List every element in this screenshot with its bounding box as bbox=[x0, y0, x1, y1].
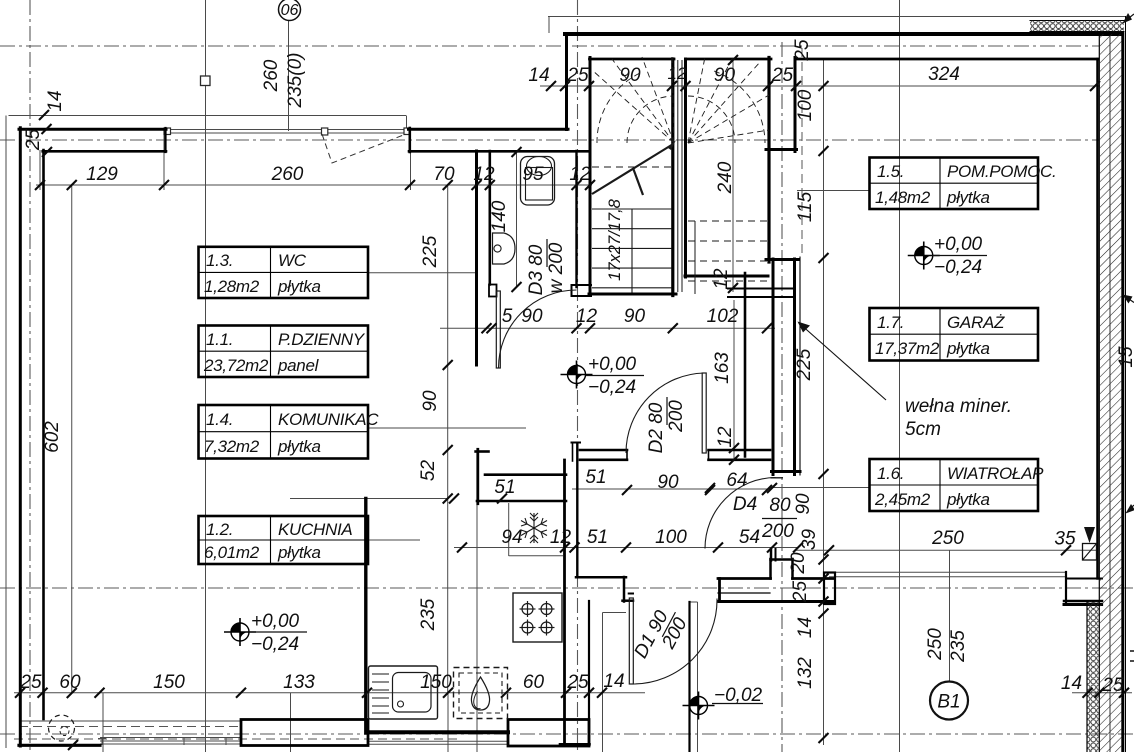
svg-text:1.1.: 1.1. bbox=[206, 330, 233, 349]
svg-text:płytka: płytka bbox=[946, 188, 990, 207]
T mark bbox=[101, 738, 103, 745]
wall layer line inside hatch bbox=[1109, 36, 1111, 752]
window mid cap bbox=[322, 128, 328, 135]
svg-text:100: 100 bbox=[795, 89, 816, 121]
ticks row C bbox=[482, 323, 773, 333]
right bottom insulation boundaries bbox=[1086, 601, 1088, 752]
svg-text:52: 52 bbox=[418, 460, 439, 482]
svg-text:94: 94 bbox=[501, 527, 522, 548]
outer face step at stair bbox=[548, 17, 550, 34]
wall hall east thin face bbox=[799, 257, 801, 475]
svg-text:14: 14 bbox=[45, 90, 66, 111]
wall left outer bbox=[19, 128, 22, 746]
svg-text:90: 90 bbox=[420, 390, 441, 412]
ticks stack x823 bbox=[819, 81, 829, 743]
stove bbox=[513, 593, 562, 642]
arrow right wall lower bbox=[1128, 505, 1134, 511]
svg-text:25: 25 bbox=[792, 39, 813, 62]
south pier 1 bbox=[241, 720, 368, 746]
svg-text:133: 133 bbox=[283, 672, 315, 693]
entrance arrow marker bbox=[1084, 527, 1095, 543]
dim row F line left bbox=[14, 692, 645, 694]
door D2 swing arc bbox=[626, 373, 704, 453]
axis horizontal A bbox=[0, 45, 1099, 47]
FIXTURES bbox=[49, 157, 563, 742]
wall stair central left bbox=[671, 59, 674, 296]
wall top mid outer edge bbox=[409, 128, 569, 131]
wall stair NW vertical bbox=[565, 34, 568, 130]
svg-text:D4: D4 bbox=[733, 494, 757, 515]
svg-text:płytka: płytka bbox=[946, 339, 990, 358]
extension line B1 x899 bbox=[899, 0, 901, 752]
svg-text:90: 90 bbox=[624, 306, 646, 327]
leader table kuchnia bbox=[368, 539, 420, 541]
svg-text:240: 240 bbox=[715, 161, 736, 194]
table 1.4 KOMUNIKACJA bbox=[199, 405, 369, 459]
svg-text:12: 12 bbox=[711, 268, 732, 290]
svg-text:163: 163 bbox=[712, 352, 733, 384]
svg-text:14: 14 bbox=[528, 65, 549, 86]
axis horizontal B bbox=[0, 139, 1099, 141]
wall cap at x409 bbox=[408, 128, 411, 152]
ticks row A bbox=[546, 81, 1100, 91]
svg-text:12: 12 bbox=[473, 164, 495, 185]
kitchen window lines bbox=[368, 740, 508, 742]
wall stub below D4 bbox=[770, 549, 773, 561]
svg-text:B1: B1 bbox=[937, 692, 960, 713]
ticks row D bbox=[457, 543, 803, 553]
wall corridor south right of D2 bbox=[709, 449, 771, 452]
top window glazing bbox=[168, 129, 406, 131]
dim extension stubs row B bbox=[39, 150, 41, 190]
svg-text:płytka: płytka bbox=[277, 437, 321, 456]
axis bubble B1 bbox=[930, 682, 968, 720]
right edge small marks bbox=[1130, 650, 1134, 652]
table 1.7 GARAZ bbox=[870, 308, 1039, 361]
door D2 leaf bbox=[702, 373, 706, 453]
jamb D2 west block bbox=[572, 442, 581, 444]
wall window end cap left bbox=[164, 128, 166, 152]
wall kitchen north lower bbox=[477, 500, 566, 503]
svg-text:+0,00: +0,00 bbox=[251, 611, 300, 632]
wall kitchen north upper bbox=[485, 473, 566, 476]
svg-text:−0,24: −0,24 bbox=[934, 257, 982, 278]
wall stair bottom right flight bbox=[685, 275, 768, 278]
axis vertical 3 bbox=[781, 42, 783, 752]
table 1.1 P.DZIENNY bbox=[199, 326, 369, 378]
dim 240 stair bbox=[732, 60, 734, 292]
dim row A line bbox=[540, 85, 1100, 87]
svg-text:płytka: płytka bbox=[946, 490, 990, 509]
svg-text:150: 150 bbox=[153, 672, 185, 693]
svg-text:płytka: płytka bbox=[277, 277, 321, 296]
stair treads left flight bbox=[592, 208, 672, 210]
svg-text:1.6.: 1.6. bbox=[877, 464, 904, 483]
wall band under stair landing bbox=[728, 288, 795, 290]
kitchen sink unit bbox=[369, 666, 438, 719]
svg-text:39: 39 bbox=[799, 529, 820, 551]
axis 06 stem bbox=[288, 21, 290, 132]
svg-text:20: 20 bbox=[788, 552, 809, 575]
wall entry south band bottom edge bbox=[719, 600, 833, 603]
axis vertical 2 bbox=[577, 0, 579, 752]
svg-text:1.5.: 1.5. bbox=[877, 162, 904, 181]
door D1 swing arc bbox=[633, 599, 717, 685]
STAIRS bbox=[592, 57, 769, 294]
extension verticals below bbox=[102, 693, 104, 752]
table 1.2 KUCHNIA bbox=[199, 516, 369, 564]
svg-text:60: 60 bbox=[523, 672, 545, 693]
door label D3 bbox=[526, 239, 567, 295]
toilet tank bbox=[521, 157, 555, 206]
dim row F line right bbox=[1072, 692, 1132, 694]
heater flame drop bbox=[471, 677, 489, 710]
dim 163 line bbox=[733, 300, 735, 460]
leader table komunikacja bbox=[368, 427, 526, 429]
svg-text:5: 5 bbox=[502, 306, 513, 327]
svg-text:51: 51 bbox=[587, 527, 608, 548]
svg-text:54: 54 bbox=[739, 527, 760, 548]
B1 stem bbox=[949, 550, 951, 681]
small square marker on line x205 bbox=[201, 76, 211, 86]
door D3 leaf bbox=[496, 291, 500, 368]
wall WC west outer bbox=[475, 151, 478, 365]
leader table WC bbox=[367, 272, 476, 274]
svg-text:51: 51 bbox=[585, 467, 606, 488]
wall kitchen west bbox=[364, 499, 367, 734]
svg-text:64: 64 bbox=[726, 470, 747, 491]
wall garage north inner face bbox=[795, 58, 1098, 61]
svg-text:14: 14 bbox=[603, 671, 624, 692]
axis horizontal C bbox=[0, 587, 1134, 589]
boiler dashed circle bbox=[49, 715, 75, 741]
svg-text:90: 90 bbox=[714, 65, 736, 86]
svg-text:35: 35 bbox=[1054, 529, 1076, 550]
ticks row G bbox=[443, 485, 772, 504]
wall band below stair east bbox=[766, 258, 799, 261]
ticks dim 602 bbox=[67, 180, 77, 698]
top insulation dotted band bbox=[1030, 21, 1124, 32]
jamb D3 right bbox=[572, 284, 592, 286]
dim row G right bbox=[572, 488, 770, 490]
door D1 right jamb bbox=[718, 579, 721, 602]
fridge snowflake bbox=[521, 513, 547, 543]
toilet bowl bbox=[526, 168, 553, 201]
wall top mid inner edge bbox=[409, 150, 590, 153]
wall hall east left edge bbox=[772, 259, 775, 475]
south wall bottom edge left bbox=[19, 744, 100, 747]
table 1.5 POM.POMOC bbox=[870, 158, 1039, 210]
svg-text:235(0): 235(0) bbox=[285, 53, 306, 109]
svg-text:GARAŻ: GARAŻ bbox=[947, 313, 1005, 332]
table 1.3 WC bbox=[199, 247, 369, 298]
svg-text:1.4.: 1.4. bbox=[206, 410, 233, 429]
svg-text:100: 100 bbox=[655, 527, 687, 548]
wall kitchen east outer bbox=[576, 443, 578, 577]
ticks row E bbox=[824, 545, 1071, 555]
svg-text:12: 12 bbox=[715, 426, 736, 448]
svg-text:1,28m2: 1,28m2 bbox=[204, 277, 260, 296]
wall top-left outer edge bbox=[19, 128, 166, 131]
svg-text:25: 25 bbox=[790, 581, 811, 604]
top insulation band boundary bbox=[1030, 20, 1124, 22]
svg-text:7,32m2: 7,32m2 bbox=[204, 437, 260, 456]
svg-text:1.7.: 1.7. bbox=[877, 313, 904, 332]
svg-text:WC: WC bbox=[278, 251, 307, 270]
wall left inner bbox=[42, 150, 45, 719]
wall notch top bbox=[771, 558, 793, 561]
svg-text:1.3.: 1.3. bbox=[206, 251, 233, 270]
svg-text:260: 260 bbox=[271, 164, 304, 185]
dim stack x823 bbox=[823, 58, 825, 745]
svg-text:+0,00: +0,00 bbox=[934, 234, 983, 255]
porch bottom cap left bbox=[560, 743, 590, 746]
svg-text:25: 25 bbox=[771, 65, 794, 86]
wall hall east bottom cap bbox=[772, 470, 801, 473]
stair walking arc right bbox=[688, 96, 735, 143]
svg-text:12: 12 bbox=[550, 527, 572, 548]
svg-text:KUCHNIA: KUCHNIA bbox=[278, 520, 352, 539]
ticks row B bbox=[35, 180, 595, 190]
svg-text:250: 250 bbox=[931, 528, 964, 549]
svg-text:14: 14 bbox=[795, 617, 816, 638]
svg-text:324: 324 bbox=[928, 64, 960, 85]
stair tread dashed above break bbox=[592, 166, 672, 168]
wall stair central right bbox=[684, 59, 687, 277]
wall stair west bbox=[589, 58, 592, 295]
arrow right wall mid bbox=[1126, 297, 1134, 303]
svg-text:23,72m2: 23,72m2 bbox=[203, 356, 269, 375]
outer face left bbox=[5, 116, 7, 749]
svg-text:−0,24: −0,24 bbox=[251, 634, 299, 655]
room tables bbox=[199, 158, 1039, 565]
svg-text:17,37m2: 17,37m2 bbox=[875, 339, 940, 358]
door label D4 bbox=[733, 494, 797, 542]
svg-text:25: 25 bbox=[1101, 675, 1124, 696]
wall finger right edge bbox=[794, 58, 797, 152]
svg-text:14: 14 bbox=[1061, 673, 1082, 694]
tick bottom-left wall bbox=[68, 147, 522, 750]
door D1 leaf bbox=[629, 598, 633, 684]
window left cap bbox=[164, 128, 171, 135]
level marker hall bbox=[561, 361, 593, 389]
door D4 leaf bbox=[771, 477, 784, 479]
svg-text:235: 235 bbox=[948, 630, 969, 663]
ticks dim 64 bbox=[705, 483, 777, 493]
stair balustrade line bbox=[694, 221, 696, 294]
svg-text:200: 200 bbox=[666, 400, 687, 433]
door label D2 bbox=[646, 397, 687, 453]
stair break line bbox=[592, 144, 674, 195]
svg-text:D3 80: D3 80 bbox=[526, 244, 547, 295]
door label D1 bbox=[630, 602, 693, 671]
stair winder radial dashed bbox=[592, 57, 769, 143]
kitchen south wall band bbox=[367, 730, 508, 734]
wall finger bottom cap bbox=[766, 148, 797, 151]
porch west wall bbox=[588, 601, 590, 746]
svg-text:15: 15 bbox=[1116, 346, 1134, 368]
svg-text:WIATROŁAP: WIATROŁAP bbox=[947, 464, 1044, 483]
dim row G left bbox=[290, 498, 448, 500]
svg-text:225: 225 bbox=[420, 235, 441, 268]
dim row B line bbox=[36, 184, 592, 186]
DOORS bbox=[496, 290, 783, 684]
svg-text:6,01m2: 6,01m2 bbox=[204, 543, 260, 562]
jamb D3 left bbox=[489, 285, 497, 297]
dim row E line bbox=[795, 549, 1098, 551]
outer insulation face top-left bbox=[9, 115, 407, 117]
gas heater dashed box bbox=[454, 668, 508, 719]
svg-text:12: 12 bbox=[576, 306, 598, 327]
wall corridor stub bbox=[476, 449, 479, 503]
wc washbasin bbox=[493, 233, 516, 264]
right insulation dotted band bbox=[1088, 602, 1100, 752]
window opening dashed V bbox=[322, 134, 406, 163]
dim stack x448 bbox=[447, 185, 449, 692]
svg-text:60: 60 bbox=[59, 672, 81, 693]
south pier 2 bbox=[508, 720, 589, 747]
level marker living room bbox=[224, 618, 256, 646]
svg-text:25: 25 bbox=[19, 672, 42, 693]
wall stair bottom left bbox=[589, 293, 676, 296]
wall stub cap bbox=[476, 450, 489, 453]
porch east wall bbox=[688, 602, 690, 752]
wall WC west inner bbox=[488, 151, 491, 285]
ticks row F bbox=[15, 688, 1129, 698]
secondary dashed lines bottom left bbox=[14, 48, 802, 739]
svg-text:132: 132 bbox=[795, 657, 816, 689]
140 dim line bbox=[516, 152, 518, 287]
window right cap bbox=[404, 128, 410, 135]
svg-text:235: 235 bbox=[418, 598, 439, 631]
svg-text:102: 102 bbox=[707, 306, 739, 327]
svg-text:150: 150 bbox=[420, 672, 452, 693]
wall top main very thick bbox=[565, 32, 1122, 36]
leader table pom.pomoc bbox=[797, 190, 870, 192]
dim line 602 bbox=[71, 185, 73, 693]
ticks top-left wall bbox=[39, 110, 52, 157]
wall garage east inner bbox=[1096, 59, 1099, 579]
table 1.6 WIATROLAP bbox=[870, 459, 1039, 511]
svg-text:70: 70 bbox=[433, 164, 455, 185]
right wall hatch boundaries bbox=[1098, 34, 1100, 752]
svg-text:2,45m2: 2,45m2 bbox=[874, 490, 931, 509]
svg-text:25: 25 bbox=[23, 129, 44, 152]
svg-text:80: 80 bbox=[769, 495, 791, 516]
garage door jamb left bbox=[824, 573, 835, 605]
level marker porch bbox=[683, 692, 715, 720]
svg-text:51: 51 bbox=[494, 477, 515, 498]
svg-text:95: 95 bbox=[522, 164, 544, 185]
jamb D1 left bbox=[629, 593, 633, 595]
svg-text:1.2.: 1.2. bbox=[206, 520, 233, 539]
corner arrow top right bbox=[1127, 14, 1134, 20]
svg-text:25: 25 bbox=[566, 65, 589, 86]
wall garage south right bbox=[1064, 603, 1102, 606]
svg-text:115: 115 bbox=[795, 191, 816, 222]
svg-text:129: 129 bbox=[86, 164, 118, 185]
wall top-left inner edge bbox=[43, 150, 166, 153]
svg-text:wełna miner.: wełna miner. bbox=[905, 396, 1012, 417]
svg-text:D2 80: D2 80 bbox=[646, 402, 667, 453]
leader table wiatrolap / dim 64 bbox=[770, 487, 870, 489]
axis horizontal D bbox=[0, 733, 1134, 735]
wall kitchen SE jog bbox=[576, 576, 626, 579]
svg-text:KOMUNIKAC: KOMUNIKAC bbox=[278, 410, 379, 429]
fridge niche bbox=[508, 503, 510, 556]
svg-text:+0,00: +0,00 bbox=[588, 354, 637, 375]
axis vertical 1 bbox=[29, 0, 31, 752]
svg-text:12: 12 bbox=[668, 64, 687, 83]
level marker garage bbox=[908, 242, 940, 270]
svg-text:225: 225 bbox=[794, 348, 815, 381]
insulation leader bbox=[799, 323, 886, 400]
svg-text:260: 260 bbox=[261, 59, 282, 92]
porch walls thin bbox=[602, 613, 604, 752]
svg-text:płytka: płytka bbox=[277, 543, 321, 562]
svg-text:17x27/17,8: 17x27/17,8 bbox=[606, 198, 624, 280]
svg-text:200: 200 bbox=[761, 521, 794, 542]
axis bubble 06 bbox=[279, 0, 301, 21]
wall duct vertical bbox=[744, 273, 747, 457]
svg-text:12: 12 bbox=[569, 164, 591, 185]
wall corridor south left of D2 bbox=[580, 449, 627, 452]
garage door leaf bbox=[829, 571, 1066, 573]
svg-text:1,48m2: 1,48m2 bbox=[875, 188, 931, 207]
ticks stack x448 bbox=[443, 180, 453, 455]
svg-text:90: 90 bbox=[793, 493, 814, 515]
ticks dim 240 bbox=[728, 55, 739, 465]
svg-text:90: 90 bbox=[521, 306, 543, 327]
stair treads right flight dashed bbox=[688, 221, 767, 281]
wall hall east right edge bbox=[793, 259, 796, 475]
svg-text:5cm: 5cm bbox=[905, 419, 941, 440]
dim row C line bbox=[440, 327, 775, 329]
wall kitchen east inner bbox=[563, 460, 566, 745]
svg-text:250: 250 bbox=[925, 628, 946, 661]
svg-text:w 200: w 200 bbox=[546, 242, 567, 293]
wall entry south band top edge bbox=[718, 577, 771, 580]
outer face top right bbox=[548, 16, 1126, 18]
right wall diagonal hatch bbox=[1100, 34, 1122, 752]
svg-text:602: 602 bbox=[42, 421, 63, 453]
svg-text:P.DZIENNY: P.DZIENNY bbox=[278, 330, 366, 349]
door D4 swing arc bbox=[705, 478, 776, 549]
svg-text:06: 06 bbox=[281, 2, 299, 19]
wall stair east bbox=[767, 58, 770, 263]
garage door jamb right bbox=[1065, 572, 1067, 604]
stair arrow head at center bbox=[668, 140, 676, 150]
extension line x205 bbox=[205, 0, 207, 752]
wall stair north inner face 2 bbox=[687, 58, 772, 61]
svg-text:140: 140 bbox=[489, 200, 510, 232]
south window left lines bbox=[19, 720, 241, 722]
stair walk line left bbox=[631, 209, 633, 293]
entry door frame line bbox=[718, 592, 770, 594]
wall stair north inner face bbox=[590, 58, 675, 61]
dim row D line bbox=[454, 547, 798, 549]
svg-text:POM.POMOC.: POM.POMOC. bbox=[947, 162, 1056, 181]
svg-text:panel: panel bbox=[277, 356, 320, 375]
wall WC east bbox=[575, 151, 577, 287]
svg-text:25: 25 bbox=[566, 672, 589, 693]
svg-text:90: 90 bbox=[657, 472, 679, 493]
door D3 swing arc bbox=[499, 290, 577, 368]
wall notch verticals bbox=[769, 559, 772, 579]
svg-text:−0,24: −0,24 bbox=[588, 377, 636, 398]
svg-text:90: 90 bbox=[619, 65, 641, 86]
stair walking arc left bbox=[627, 96, 674, 143]
